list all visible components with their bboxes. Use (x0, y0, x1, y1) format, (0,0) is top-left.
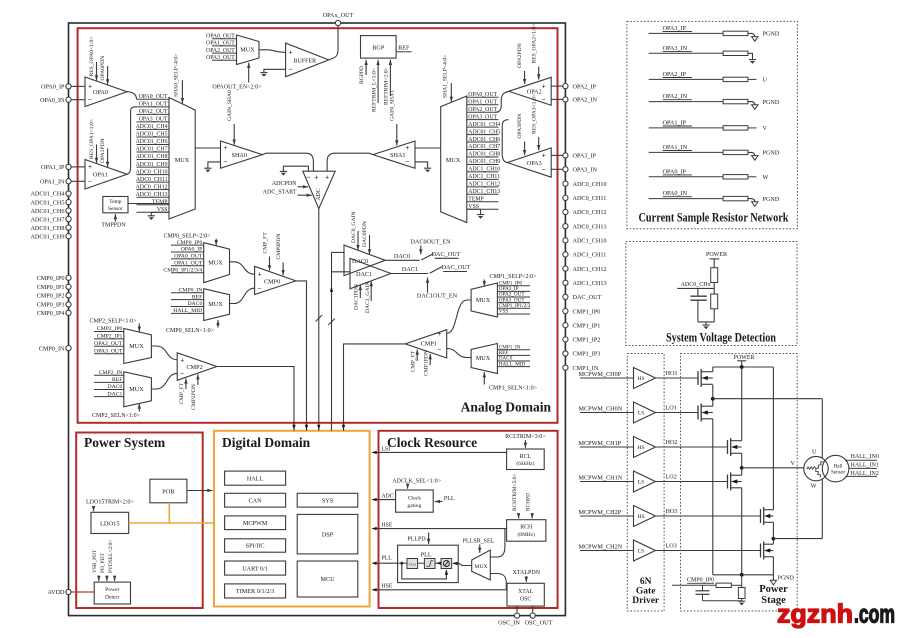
wire mux to SHA0 (195, 147, 220, 149)
sense resistor row OPA3_IN (649, 45, 756, 64)
svg-text:ADC01_CH6: ADC01_CH6 (468, 137, 500, 143)
SHA0 minus ground (204, 162, 220, 173)
svg-text:DAC0PDN: DAC0PDN (362, 221, 368, 247)
pin CMP1_IN (563, 365, 599, 372)
svg-text:ADC01_CH5: ADC01_CH5 (468, 129, 500, 135)
svg-text:OPA1_IN: OPA1_IN (40, 179, 65, 186)
svg-text:DAC_OUT: DAC_OUT (573, 294, 602, 301)
wire mux in XTAL (490, 574, 506, 590)
svg-text:MCPWM_CH2N: MCPWM_CH2N (579, 543, 623, 550)
svg-text:+: + (542, 152, 546, 160)
svg-text:+: + (224, 144, 228, 152)
svg-text:OPA2_IP: OPA2_IP (663, 71, 687, 78)
pin ADC01_CH7 (30, 216, 71, 223)
svg-text:VSR_PDT: VSR_PDT (92, 549, 98, 573)
wire mux in HSE (490, 529, 505, 557)
wire buffer to OPAx_OUT (329, 26, 338, 60)
svg-text:SPI/IIC: SPI/IIC (246, 543, 265, 550)
wire CMP2N mux out (151, 373, 177, 389)
power stage POWER tap (734, 355, 755, 367)
svg-text:−: − (306, 172, 310, 181)
mux CMP1 N (471, 344, 497, 374)
digital domain box (214, 431, 370, 607)
mux CMP2 N rows (94, 370, 124, 397)
wire CMP2 out bus (217, 367, 296, 431)
gate driver HS HO1 (579, 368, 699, 389)
svg-text:UART 0/1: UART 0/1 (242, 565, 268, 572)
svg-text:ADC01_CH6: ADC01_CH6 (136, 139, 168, 145)
svg-text:CMP0_IP0: CMP0_IP0 (37, 275, 65, 282)
PLL filter box (424, 559, 435, 569)
gate driver HS HO3 (579, 506, 761, 527)
svg-text:CMP_FT: CMP_FT (262, 232, 268, 254)
svg-text:ADC1_CH10: ADC1_CH10 (573, 238, 607, 245)
dac DAC0 (344, 245, 385, 276)
svg-text:REF: REF (398, 45, 410, 51)
svg-text:CMP1_SELP<2:0>: CMP1_SELP<2:0> (489, 274, 537, 280)
transistor Q5 HO3 (761, 367, 774, 525)
digital block HALL (225, 471, 286, 485)
svg-text:OPA2_OUT: OPA2_OUT (139, 109, 168, 115)
svg-text:ADC01_CH4: ADC01_CH4 (136, 124, 168, 130)
svg-text:CMP0_IN: CMP0_IN (39, 345, 65, 352)
transistor Q1 HO1 (698, 367, 713, 387)
PLL phase box (441, 559, 452, 569)
svg-text:ADC: ADC (382, 494, 394, 500)
wire CMP1P mux out (447, 300, 471, 334)
svg-text:CMP0: CMP0 (264, 278, 280, 285)
svg-text:Sensor: Sensor (831, 470, 845, 476)
svg-text:CMP1_IP2: CMP1_IP2 (573, 337, 601, 344)
SVD ground (702, 322, 709, 329)
svg-text:ADC1_CH12: ADC1_CH12 (573, 266, 607, 273)
wire OPA3 out to mux (502, 120, 508, 163)
svg-text:+: + (258, 271, 262, 279)
DAC1 output switch (391, 264, 471, 300)
svg-text:MUX: MUX (208, 260, 223, 267)
svg-text:OPA2_OUT: OPA2_OUT (94, 341, 123, 347)
wire CMP0P mux out (230, 262, 255, 274)
svg-text:OSC: OSC (520, 596, 531, 602)
RCLTRIM arrow (505, 434, 546, 448)
svg-text:OPA3_IP: OPA3_IP (573, 153, 597, 160)
svg-text:OPA3_OUT: OPA3_OUT (468, 114, 497, 120)
svg-text:Temp: Temp (109, 199, 122, 205)
svg-text:−: − (437, 345, 441, 353)
SVD power tap (706, 252, 727, 268)
amp SHA1 (373, 141, 415, 168)
svg-text:OPA3_IP: OPA3_IP (663, 25, 687, 32)
mux SHA0 input (169, 98, 195, 220)
svg-text:DAC1: DAC1 (356, 271, 372, 278)
mux SHA1 input rows (467, 92, 500, 210)
svg-text:Gate: Gate (636, 587, 656, 597)
svg-text:LS: LS (638, 480, 645, 486)
sense resistor vertical (738, 588, 745, 606)
svg-text:TEMP: TEMP (152, 199, 167, 205)
svg-text:CMP1_IP0: CMP1_IP0 (573, 308, 601, 315)
wire SHA1 to ADC (327, 153, 373, 171)
svg-text:HO3: HO3 (666, 508, 678, 515)
CMP1 control arrows (410, 350, 432, 377)
svg-text:MCPWM_CH1N: MCPWM_CH1N (579, 474, 623, 481)
temp sensor box (103, 197, 128, 213)
svg-text:ADC0_CH10: ADC0_CH10 (136, 169, 168, 175)
svg-text:MCU: MCU (320, 576, 335, 583)
power system box (76, 433, 203, 609)
pin AVDD (47, 589, 94, 596)
svg-text:CMP2_IP1: CMP2_IP1 (97, 334, 123, 340)
wire OPA2 out to mux (496, 91, 509, 112)
comparator CMP2 (177, 353, 217, 381)
svg-text:CMP0_SELP<2:0>: CMP0_SELP<2:0> (163, 233, 211, 239)
svg-text:OPA2_IN: OPA2_IN (663, 93, 688, 100)
comparator CMP1 (405, 330, 446, 358)
pin OSC_IN (498, 606, 520, 626)
svg-text:VCO: VCO (409, 563, 417, 567)
bandgap BGP (361, 36, 397, 59)
svg-text:LO2: LO2 (666, 474, 677, 481)
pin CMP1_IP3 (563, 351, 601, 358)
svg-text:VSS: VSS (499, 309, 509, 315)
svg-text:Detect: Detect (105, 594, 120, 600)
svg-text:HALL_MID: HALL_MID (173, 308, 202, 314)
sense resistor row OPA0_IN (649, 190, 780, 206)
svg-text:RCLTRIM<3:0>: RCLTRIM<3:0> (505, 434, 546, 440)
svg-text:LDO15: LDO15 (100, 521, 120, 528)
svg-text:HS: HS (637, 376, 644, 382)
dac DAC1 (350, 258, 391, 289)
svg-text:PGND: PGND (763, 99, 780, 106)
DAC0 control arrows (351, 212, 371, 255)
pin ADC01_CH8 (30, 225, 71, 232)
mux CMP2 P (124, 329, 152, 364)
svg-text:ADC: ADC (316, 188, 322, 200)
svg-text:CMP0_IP1: CMP0_IP1 (37, 284, 65, 291)
gate driver HS HO2 (579, 437, 728, 458)
CMP2 control arrows (179, 374, 200, 410)
power detect box (94, 582, 130, 604)
svg-text:ADC0_CH12: ADC0_CH12 (573, 209, 607, 216)
svg-text:HALL: HALL (247, 475, 264, 482)
svg-text:−: − (180, 370, 184, 378)
svg-text:OPA2_OUT: OPA2_OUT (468, 107, 497, 113)
svg-text:MUX: MUX (129, 343, 144, 350)
svg-text:OSC_IN: OSC_IN (498, 620, 520, 627)
svg-text:+: + (88, 163, 92, 171)
ADC minus ground (280, 166, 309, 175)
svg-text:−: − (88, 96, 92, 104)
wire ADC out bus (316, 209, 323, 431)
svg-text:CMP0_SELN<1:0>: CMP0_SELN<1:0> (166, 328, 215, 334)
svg-text:HALL_IN2: HALL_IN2 (851, 471, 879, 477)
svg-text:LS: LS (638, 549, 645, 555)
svg-text:OPA1_OUT: OPA1_OUT (206, 41, 235, 47)
XTAL OSC box (507, 583, 544, 606)
wire mux to SHA1 (415, 147, 441, 149)
svg-text:MCPWM: MCPWM (243, 520, 268, 527)
clock mux (472, 550, 491, 580)
pin CMP0_IP3 (37, 302, 71, 309)
GAIN_SHA1 arrow (390, 90, 399, 145)
pin CMP0_IP1 (37, 284, 71, 291)
svg-text:HSE: HSE (382, 583, 393, 589)
svg-text:OPA0_IP: OPA0_IP (41, 84, 65, 91)
mux CMP0 N (204, 289, 230, 321)
svg-text:OPA2_IN: OPA2_IN (573, 97, 598, 104)
svg-text:PGND: PGND (763, 196, 780, 203)
svg-text:SHA1_SELP<4:0>: SHA1_SELP<4:0> (443, 55, 449, 98)
svg-text:ADC01_CH4: ADC01_CH4 (468, 122, 500, 128)
svg-text:GAIN_SHA0: GAIN_SHA0 (227, 90, 233, 121)
svg-text:CMP1_SELN<1:0>: CMP1_SELN<1:0> (489, 385, 538, 391)
svg-text:+: + (180, 356, 184, 364)
pin ADC01_CH9 (30, 233, 71, 240)
svg-text:MUX: MUX (175, 157, 190, 164)
svg-text:HSE: HSE (382, 523, 393, 529)
svg-text:ADC1_CH13: ADC1_CH13 (468, 189, 500, 195)
svg-text:DAC1_GAIN: DAC1_GAIN (365, 282, 371, 313)
svg-text:W: W (763, 174, 769, 181)
analog domain box (78, 28, 558, 423)
svg-text:(64kHz): (64kHz) (516, 460, 534, 467)
wire CMP0N mux out (230, 288, 255, 303)
svg-text:ADC01_CH7: ADC01_CH7 (468, 144, 500, 150)
PGND tap (770, 575, 794, 585)
sense network CMP0_IP0 (672, 575, 742, 588)
svg-text:OPA1_OUT: OPA1_OUT (468, 99, 497, 105)
PLL into gating arrow (435, 496, 455, 503)
mux CMP0 P rows (163, 240, 203, 274)
svg-text:OPA1_IP: OPA1_IP (41, 164, 65, 171)
op-amp OPA1 (71, 160, 127, 190)
svg-text:LS: LS (638, 411, 645, 417)
svg-text:ADC1_CH11: ADC1_CH11 (468, 174, 500, 180)
svg-text:CMP0_IP4: CMP0_IP4 (37, 310, 65, 317)
svg-text:MCPWM_CH0P: MCPWM_CH0P (579, 371, 622, 378)
svg-text:CMP2_IN: CMP2_IN (99, 370, 123, 376)
power stage bottom rail (713, 573, 774, 577)
svg-text:OPA2PDN: OPA2PDN (517, 43, 523, 68)
BGP control arrows (359, 60, 392, 112)
svg-text:ADC01_CH5: ADC01_CH5 (136, 132, 168, 138)
wire SHA0 to ADC (262, 153, 313, 171)
OPA3 control arrows (517, 94, 540, 155)
svg-text:CAN: CAN (249, 497, 263, 504)
DAC0 output switch (385, 239, 460, 261)
svg-text:CMP0_IP0: CMP0_IP0 (177, 240, 203, 246)
svg-text:OPA1PDN: OPA1PDN (100, 138, 106, 163)
pin CMP1_IP1 (563, 322, 601, 329)
svg-text:OPA1_IP: OPA1_IP (663, 120, 687, 127)
wire HSE rch (372, 523, 507, 531)
svg-text:CMP1PDN: CMP1PDN (423, 350, 429, 376)
svg-text:CMP2_IP0: CMP2_IP0 (97, 326, 123, 332)
mux OPA out (237, 35, 260, 65)
svg-text:MCPWM_CH2P: MCPWM_CH2P (579, 509, 622, 516)
svg-text:HALL_IN1: HALL_IN1 (851, 463, 879, 469)
svg-text:OPA3_IN: OPA3_IN (573, 167, 598, 174)
adc ADC (303, 171, 335, 208)
svg-text:LSI: LSI (382, 446, 391, 452)
svg-text:PGND: PGND (778, 576, 795, 582)
wire CMP1N mux out (447, 349, 471, 358)
CMP0_SELP arrow (163, 233, 217, 245)
svg-text:−: − (258, 284, 262, 292)
wire ADC clk (372, 494, 396, 502)
digital block SPI/IIC (225, 539, 286, 552)
sense resistor row OPA1_IN (649, 144, 780, 160)
mux CMP0 P (204, 243, 230, 283)
svg-text:RCH: RCH (520, 524, 533, 530)
system voltage detection box (626, 242, 797, 346)
SVD bottom wire (698, 309, 714, 322)
buffer BUFFER (286, 43, 329, 77)
svg-text:OPA3_OUT: OPA3_OUT (94, 348, 123, 354)
svg-text:CMP0_IP2: CMP0_IP2 (37, 293, 65, 300)
GAIN_SHA0 arrow (227, 90, 236, 145)
pin ADC01_CH5 (30, 199, 71, 206)
svg-text:+: + (542, 82, 546, 90)
svg-text:ADC01_CH8: ADC01_CH8 (136, 154, 168, 160)
svg-text:DAC0: DAC0 (108, 384, 123, 390)
svg-text:ADC01_CH7: ADC01_CH7 (136, 147, 168, 153)
wire HSE xtal (372, 583, 508, 591)
yellow power wires (129, 503, 214, 523)
pin CMP0_IP4 (37, 310, 71, 317)
svg-text:REFTRIM_L<1:0>: REFTRIM_L<1:0> (371, 68, 377, 112)
node V (740, 453, 804, 469)
wire CMP2P mux out (151, 346, 177, 360)
hall sensor (822, 455, 849, 482)
svg-text:DAC1: DAC1 (402, 266, 418, 273)
gate driver LS LO3 (579, 540, 761, 561)
svg-text:Clock Resource: Clock Resource (387, 435, 477, 450)
svg-text:V: V (763, 125, 768, 132)
wire OPA1 out to mux (127, 107, 137, 174)
svg-text:CMP1_IP3: CMP1_IP3 (573, 351, 601, 358)
svg-text:+: + (88, 83, 92, 91)
PLL through line (398, 562, 442, 565)
pin ADC1_CH13 (563, 280, 607, 287)
svg-text:OPA0_IP: OPA0_IP (663, 168, 687, 175)
svg-text:CMP2_SELN<1:0>: CMP2_SELN<1:0> (92, 413, 141, 419)
svg-text:OPA0PDN: OPA0PDN (100, 56, 106, 81)
RCH control arrows (512, 473, 534, 518)
OPAOUT_EN arrow (212, 63, 262, 91)
pin OPAx_OUT (323, 12, 354, 26)
comparator CMP0 (255, 266, 296, 294)
svg-text:MUX: MUX (474, 564, 487, 570)
wire LSI (372, 446, 507, 454)
buffer minus ground (260, 69, 285, 77)
svg-text:RES_OPA0<1:0>: RES_OPA0<1:0> (89, 37, 95, 77)
svg-text:DAC1PDN: DAC1PDN (354, 284, 360, 310)
node U (711, 385, 822, 458)
mux SHA0 ground (148, 212, 169, 220)
op-amp OPA3 (507, 148, 563, 177)
svg-text:gating: gating (407, 503, 421, 509)
PLLSR_SEL arrow (463, 538, 495, 552)
svg-text:OPA3PDN: OPA3PDN (517, 114, 523, 139)
svg-text:REF: REF (192, 294, 202, 300)
svg-text:MUX: MUX (476, 355, 491, 362)
svg-text:DAC0: DAC0 (394, 253, 410, 260)
digital block UART 0/1 (225, 561, 286, 575)
svg-text:HALL_IN0: HALL_IN0 (851, 454, 879, 460)
svg-text:HS: HS (637, 445, 644, 451)
svg-text:PLLSR_SEL: PLLSR_SEL (463, 538, 495, 544)
op-amp OPA2 (509, 77, 563, 105)
svg-text:PLLPD: PLLPD (407, 537, 426, 543)
wire POR to digital (187, 489, 213, 492)
svg-text:OPA3_IN: OPA3_IN (663, 45, 688, 52)
mux CMP1 P (471, 283, 497, 317)
pin OPA3_IP (563, 153, 597, 160)
svg-text:DAC0_GAIN: DAC0_GAIN (351, 212, 357, 243)
svg-text:RES_OPA3<1:0>: RES_OPA3<1:0> (531, 94, 537, 134)
svg-text:BUFFER: BUFFER (294, 58, 317, 64)
svg-text:OPA0_IP: OPA0_IP (181, 247, 203, 253)
digital block TIMER 0/1/2/3 (225, 584, 286, 598)
svg-text:ADC01_CH9: ADC01_CH9 (30, 233, 64, 240)
svg-text:Sensor: Sensor (108, 206, 123, 212)
svg-text:RCHPD: RCHPD (526, 493, 532, 511)
SVD resistor R2 (711, 294, 718, 309)
svg-text:Driver: Driver (632, 596, 660, 606)
pin ADC1_CH10 (563, 238, 607, 245)
svg-text:OPA0_OUT: OPA0_OUT (206, 33, 235, 39)
node W (772, 480, 823, 541)
svg-text:ADC0_CH11: ADC0_CH11 (136, 177, 168, 183)
svg-text:PLL: PLL (444, 496, 455, 502)
svg-text:6N: 6N (640, 577, 652, 587)
power stage top rail (713, 365, 774, 369)
pin OPA0_IN (40, 97, 71, 104)
svg-text:TIMER 0/1/2/3: TIMER 0/1/2/3 (236, 588, 274, 595)
svg-text:OPA1_IN: OPA1_IN (663, 144, 688, 151)
svg-text:.com: .com (854, 599, 895, 629)
svg-text:OPA0_OUT: OPA0_OUT (468, 92, 497, 98)
svg-text:Power: Power (759, 584, 788, 595)
svg-text:SHA0_SELP<4:0>: SHA0_SELP<4:0> (174, 54, 180, 97)
wire temp to mux (128, 203, 169, 205)
svg-text:OPAx_OUT: OPAx_OUT (323, 12, 354, 19)
svg-text:Analog Domain: Analog Domain (461, 400, 552, 415)
svg-text:MUX: MUX (446, 157, 461, 164)
power detect arrows (92, 540, 116, 581)
svg-text:−: − (289, 65, 293, 73)
svg-text:SHA1: SHA1 (390, 152, 405, 159)
pin OPA1_IN (40, 179, 71, 186)
sense resistor row OPA3_IP (649, 25, 780, 41)
svg-text:ADC0_CH10: ADC0_CH10 (573, 181, 607, 188)
svg-text:CMP2: CMP2 (187, 364, 203, 371)
pin ADC0_CH13 (563, 223, 607, 230)
pin OPA1_IP (41, 164, 71, 171)
svg-text:ADC0_CH11: ADC0_CH11 (573, 195, 607, 202)
CMP2_SELN arrow (92, 404, 141, 419)
6N gate driver box (627, 354, 664, 612)
svg-text:OPA3_OUT: OPA3_OUT (139, 117, 168, 123)
svg-text:U: U (763, 77, 768, 84)
digital block CAN (225, 493, 286, 507)
clock resource box (379, 431, 558, 608)
pin OPA3_IN (563, 167, 598, 174)
RCL box (507, 449, 545, 470)
svg-text:MUX: MUX (208, 301, 223, 308)
pin ADC01_CH6 (30, 208, 71, 215)
